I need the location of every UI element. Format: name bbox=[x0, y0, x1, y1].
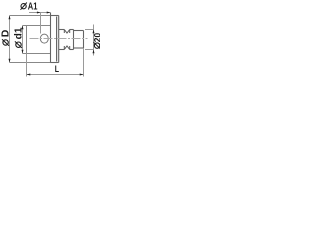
svg-text:20: 20 bbox=[92, 33, 100, 42]
svg-text:L: L bbox=[55, 63, 59, 74]
svg-text:D: D bbox=[0, 29, 12, 37]
svg-text:d1: d1 bbox=[14, 27, 25, 39]
svg-text:A1: A1 bbox=[28, 0, 38, 11]
